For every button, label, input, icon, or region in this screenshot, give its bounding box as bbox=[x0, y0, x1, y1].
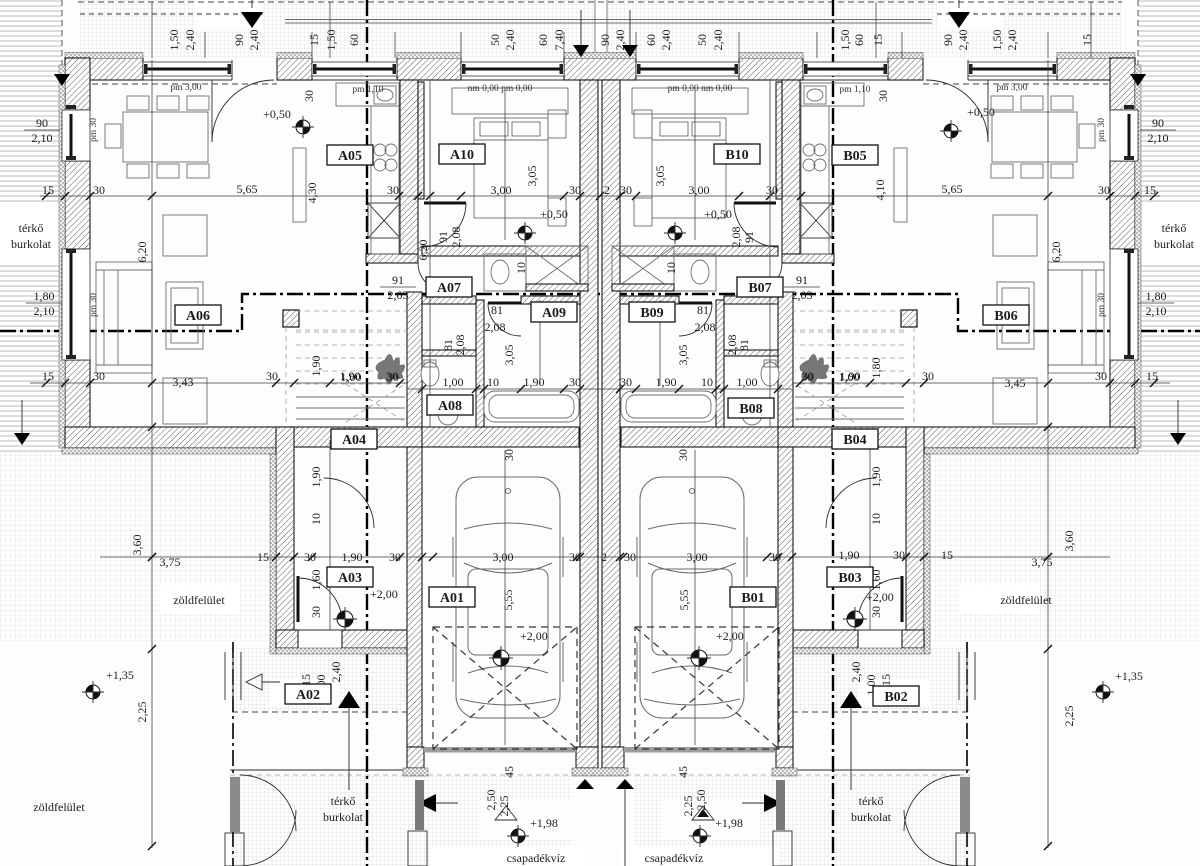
svg-text:2,40: 2,40 bbox=[247, 30, 261, 51]
svg-text:3,45: 3,45 bbox=[1005, 376, 1026, 390]
svg-text:1,80: 1,80 bbox=[34, 289, 55, 303]
svg-text:15: 15 bbox=[257, 550, 269, 564]
svg-text:4,30: 4,30 bbox=[305, 183, 319, 204]
svg-text:B10: B10 bbox=[725, 148, 748, 163]
svg-text:1,00: 1,00 bbox=[443, 375, 464, 389]
svg-text:2,10: 2,10 bbox=[1148, 131, 1169, 145]
svg-text:2,08: 2,08 bbox=[695, 320, 716, 334]
svg-text:60: 60 bbox=[347, 34, 361, 46]
svg-text:térkő: térkő bbox=[1162, 221, 1187, 235]
svg-text:1,90: 1,90 bbox=[839, 548, 860, 562]
svg-text:pm 3,00: pm 3,00 bbox=[170, 83, 201, 93]
svg-text:A06: A06 bbox=[186, 309, 210, 324]
svg-text:pm 0,00 nm 0,00: pm 0,00 nm 0,00 bbox=[668, 84, 733, 94]
svg-text:+2,00: +2,00 bbox=[866, 590, 894, 604]
svg-text:4,10: 4,10 bbox=[873, 180, 887, 201]
svg-text:A04: A04 bbox=[342, 433, 366, 448]
svg-text:6,20: 6,20 bbox=[135, 242, 149, 263]
svg-text:2,03: 2,03 bbox=[388, 288, 409, 302]
svg-text:B08: B08 bbox=[739, 402, 762, 417]
svg-text:10: 10 bbox=[514, 262, 528, 274]
svg-text:45: 45 bbox=[502, 766, 516, 778]
svg-text:B01: B01 bbox=[741, 591, 764, 606]
svg-text:pm 3,00: pm 3,00 bbox=[996, 83, 1027, 93]
svg-text:A09: A09 bbox=[542, 306, 566, 321]
svg-text:30: 30 bbox=[893, 548, 905, 562]
svg-text:30: 30 bbox=[1095, 369, 1107, 383]
svg-text:1,80: 1,80 bbox=[869, 358, 883, 379]
svg-text:91: 91 bbox=[796, 273, 808, 287]
svg-text:2,08: 2,08 bbox=[485, 320, 506, 334]
svg-text:pm 1,10: pm 1,10 bbox=[839, 85, 870, 95]
svg-text:2,40: 2,40 bbox=[659, 30, 673, 51]
svg-text:1,50: 1,50 bbox=[990, 30, 1004, 51]
svg-text:45: 45 bbox=[676, 766, 690, 778]
svg-text:2,40: 2,40 bbox=[1005, 30, 1019, 51]
svg-text:+2,00: +2,00 bbox=[716, 629, 744, 643]
svg-text:1,50: 1,50 bbox=[324, 30, 338, 51]
svg-text:2: 2 bbox=[601, 550, 607, 564]
svg-text:30: 30 bbox=[266, 369, 278, 383]
svg-text:91: 91 bbox=[392, 273, 404, 287]
svg-text:50: 50 bbox=[488, 34, 502, 46]
svg-text:15: 15 bbox=[42, 369, 54, 383]
svg-text:1,90: 1,90 bbox=[342, 550, 363, 564]
svg-text:10: 10 bbox=[701, 375, 713, 389]
svg-text:15: 15 bbox=[1146, 369, 1158, 383]
svg-text:1,00: 1,00 bbox=[737, 375, 758, 389]
svg-text:3,00: 3,00 bbox=[491, 183, 512, 197]
svg-text:+2,00: +2,00 bbox=[520, 629, 548, 643]
svg-text:15: 15 bbox=[42, 183, 54, 197]
svg-text:30: 30 bbox=[569, 183, 581, 197]
svg-text:csapadékvíz: csapadékvíz bbox=[645, 851, 704, 865]
svg-text:30: 30 bbox=[620, 183, 632, 197]
svg-text:zöldfelület: zöldfelület bbox=[1000, 593, 1052, 607]
svg-text:30: 30 bbox=[569, 375, 581, 389]
svg-text:B09: B09 bbox=[640, 306, 663, 321]
svg-text:90: 90 bbox=[1152, 116, 1164, 130]
svg-text:+1,98: +1,98 bbox=[715, 816, 743, 830]
svg-text:zöldfelület: zöldfelület bbox=[33, 800, 85, 814]
svg-text:2,40: 2,40 bbox=[503, 30, 517, 51]
svg-text:A08: A08 bbox=[438, 399, 462, 414]
svg-text:5,55: 5,55 bbox=[501, 590, 515, 611]
svg-text:1,60: 1,60 bbox=[309, 570, 323, 591]
svg-text:2,25: 2,25 bbox=[497, 796, 511, 817]
svg-text:2,50: 2,50 bbox=[484, 790, 498, 811]
svg-text:2,08: 2,08 bbox=[725, 335, 739, 356]
svg-text:10: 10 bbox=[869, 513, 883, 525]
svg-text:30: 30 bbox=[1098, 183, 1110, 197]
svg-text:3,00: 3,00 bbox=[493, 550, 514, 564]
svg-text:30: 30 bbox=[676, 449, 690, 461]
svg-text:burkolat: burkolat bbox=[851, 810, 892, 824]
svg-text:30: 30 bbox=[569, 550, 581, 564]
svg-text:1,90: 1,90 bbox=[524, 375, 545, 389]
svg-text:30: 30 bbox=[302, 90, 316, 102]
svg-text:5,55: 5,55 bbox=[677, 590, 691, 611]
svg-text:5,65: 5,65 bbox=[237, 182, 258, 196]
svg-text:2,10: 2,10 bbox=[1146, 304, 1167, 318]
svg-text:1,90: 1,90 bbox=[309, 356, 323, 377]
svg-text:15: 15 bbox=[1080, 34, 1094, 46]
svg-text:3,05: 3,05 bbox=[502, 345, 516, 366]
svg-text:3,75: 3,75 bbox=[1032, 555, 1053, 569]
svg-text:+0,50: +0,50 bbox=[704, 207, 732, 221]
svg-text:30: 30 bbox=[869, 606, 883, 618]
svg-text:5,65: 5,65 bbox=[942, 182, 963, 196]
svg-text:2,40: 2,40 bbox=[849, 662, 863, 683]
svg-text:2,40: 2,40 bbox=[711, 30, 725, 51]
svg-text:2,25: 2,25 bbox=[135, 702, 149, 723]
svg-text:60: 60 bbox=[536, 34, 550, 46]
svg-text:1,50: 1,50 bbox=[838, 30, 852, 51]
svg-text:térkő: térkő bbox=[331, 794, 356, 808]
svg-text:2,10: 2,10 bbox=[32, 131, 53, 145]
svg-text:3,00: 3,00 bbox=[687, 550, 708, 564]
svg-text:B07: B07 bbox=[748, 281, 771, 296]
svg-text:15: 15 bbox=[941, 548, 953, 562]
svg-text:30: 30 bbox=[769, 550, 781, 564]
svg-text:+0,50: +0,50 bbox=[263, 107, 291, 121]
svg-text:2,10: 2,10 bbox=[34, 304, 55, 318]
svg-text:+0,50: +0,50 bbox=[540, 207, 568, 221]
svg-text:burkolat: burkolat bbox=[323, 810, 364, 824]
svg-text:burkolat: burkolat bbox=[11, 237, 52, 251]
svg-text:+1,35: +1,35 bbox=[106, 668, 134, 682]
svg-text:csapadékvíz: csapadékvíz bbox=[507, 851, 566, 865]
svg-text:30: 30 bbox=[502, 449, 516, 461]
svg-text:zöldfelület: zöldfelület bbox=[173, 593, 225, 607]
svg-text:30: 30 bbox=[93, 183, 105, 197]
svg-text:A01: A01 bbox=[440, 591, 464, 606]
svg-text:2,40: 2,40 bbox=[956, 30, 970, 51]
svg-text:B03: B03 bbox=[838, 571, 861, 586]
svg-text:1,90: 1,90 bbox=[656, 375, 677, 389]
svg-text:nm 0,00 pm 0,00: nm 0,00 pm 0,00 bbox=[468, 84, 533, 94]
svg-text:30: 30 bbox=[624, 550, 636, 564]
svg-text:B04: B04 bbox=[843, 433, 866, 448]
svg-text:A07: A07 bbox=[437, 281, 461, 296]
svg-text:10: 10 bbox=[487, 375, 499, 389]
svg-text:91: 91 bbox=[742, 231, 756, 243]
svg-text:1,90: 1,90 bbox=[309, 467, 323, 488]
svg-text:90: 90 bbox=[598, 34, 612, 46]
svg-text:2,03: 2,03 bbox=[792, 288, 813, 302]
svg-text:2,08: 2,08 bbox=[729, 227, 743, 248]
svg-text:2,25: 2,25 bbox=[1062, 706, 1076, 727]
svg-text:2,25: 2,25 bbox=[681, 796, 695, 817]
svg-text:3,43: 3,43 bbox=[173, 375, 194, 389]
svg-text:30: 30 bbox=[620, 375, 632, 389]
svg-text:A05: A05 bbox=[338, 149, 362, 164]
svg-text:90: 90 bbox=[941, 34, 955, 46]
svg-text:B06: B06 bbox=[994, 309, 1017, 324]
svg-text:30: 30 bbox=[766, 183, 778, 197]
svg-text:+1,35: +1,35 bbox=[1115, 669, 1143, 683]
svg-text:30: 30 bbox=[801, 370, 813, 384]
svg-text:1,50: 1,50 bbox=[167, 30, 181, 51]
svg-text:B05: B05 bbox=[843, 149, 866, 164]
svg-text:15: 15 bbox=[871, 34, 885, 46]
svg-text:3,60: 3,60 bbox=[130, 535, 144, 556]
svg-text:+1,98: +1,98 bbox=[530, 816, 558, 830]
svg-text:81: 81 bbox=[697, 303, 709, 317]
svg-text:30: 30 bbox=[93, 369, 105, 383]
svg-text:30: 30 bbox=[309, 606, 323, 618]
svg-text:térkő: térkő bbox=[19, 221, 44, 235]
svg-text:30: 30 bbox=[304, 550, 316, 564]
svg-text:81: 81 bbox=[491, 303, 503, 317]
svg-text:pm 1,10: pm 1,10 bbox=[352, 85, 383, 95]
svg-text:30: 30 bbox=[389, 550, 401, 564]
svg-text:60: 60 bbox=[852, 34, 866, 46]
svg-text:3,05: 3,05 bbox=[653, 166, 667, 187]
svg-text:15: 15 bbox=[307, 34, 321, 46]
svg-text:A03: A03 bbox=[338, 571, 362, 586]
svg-text:2: 2 bbox=[604, 183, 610, 197]
svg-text:15: 15 bbox=[879, 674, 893, 686]
svg-text:10: 10 bbox=[664, 262, 678, 274]
svg-text:2,08: 2,08 bbox=[449, 227, 463, 248]
svg-text:10: 10 bbox=[309, 513, 323, 525]
svg-text:térkő: térkő bbox=[859, 794, 884, 808]
svg-text:6,20: 6,20 bbox=[416, 240, 430, 261]
svg-text:3,05: 3,05 bbox=[525, 166, 539, 187]
svg-text:3,05: 3,05 bbox=[676, 345, 690, 366]
svg-text:81: 81 bbox=[737, 339, 751, 351]
svg-text:2,40: 2,40 bbox=[329, 662, 343, 683]
svg-text:3,00: 3,00 bbox=[689, 183, 710, 197]
svg-text:90: 90 bbox=[232, 34, 246, 46]
svg-text:A10: A10 bbox=[450, 148, 474, 163]
svg-text:3,75: 3,75 bbox=[160, 555, 181, 569]
svg-text:91: 91 bbox=[436, 231, 450, 243]
svg-text:60: 60 bbox=[644, 34, 658, 46]
svg-text:A02: A02 bbox=[296, 688, 320, 703]
svg-text:30: 30 bbox=[876, 90, 890, 102]
svg-text:30: 30 bbox=[922, 369, 934, 383]
svg-text:+0,50: +0,50 bbox=[967, 105, 995, 119]
svg-text:1,90: 1,90 bbox=[869, 467, 883, 488]
svg-text:burkolat: burkolat bbox=[1154, 237, 1195, 251]
svg-text:15: 15 bbox=[1144, 183, 1156, 197]
svg-text:+2,00: +2,00 bbox=[370, 587, 398, 601]
svg-text:pm 30: pm 30 bbox=[89, 293, 99, 317]
svg-text:B02: B02 bbox=[884, 690, 907, 705]
svg-text:6,20: 6,20 bbox=[1049, 242, 1063, 263]
svg-text:2,40: 2,40 bbox=[183, 30, 197, 51]
svg-text:30: 30 bbox=[387, 183, 399, 197]
svg-text:50: 50 bbox=[695, 34, 709, 46]
svg-text:2,08: 2,08 bbox=[453, 335, 467, 356]
svg-text:2,50: 2,50 bbox=[694, 790, 708, 811]
svg-text:1,00: 1,00 bbox=[341, 370, 362, 384]
svg-text:pm 30: pm 30 bbox=[89, 118, 99, 142]
svg-text:30: 30 bbox=[387, 370, 399, 384]
svg-text:1,00: 1,00 bbox=[839, 370, 860, 384]
svg-text:3,60: 3,60 bbox=[1062, 531, 1076, 552]
svg-text:pm 30: pm 30 bbox=[1097, 118, 1107, 142]
svg-text:90: 90 bbox=[36, 116, 48, 130]
svg-text:pm 30: pm 30 bbox=[1097, 293, 1107, 317]
svg-text:1,80: 1,80 bbox=[1146, 289, 1167, 303]
